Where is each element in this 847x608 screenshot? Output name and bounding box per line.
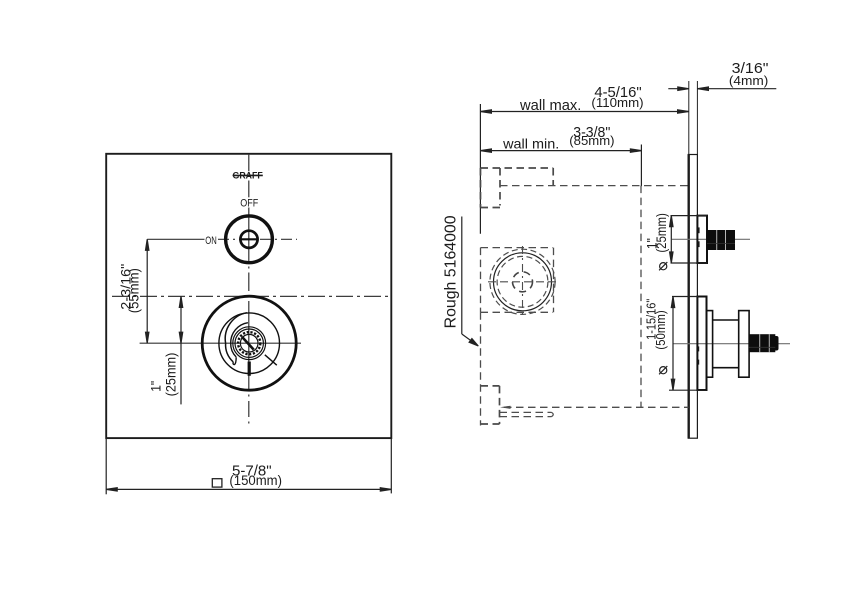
cartridge small dashed circle [513, 272, 533, 292]
cartridge vertical centerline [522, 246, 524, 318]
body right edge at wall [640, 186, 642, 408]
svg-text:wall min.: wall min. [502, 135, 559, 151]
dimension text 4-5/16" [594, 84, 641, 101]
dimension text 3/16" [732, 60, 769, 77]
knob centerline (side view) [672, 238, 750, 240]
svg-text:(50mm): (50mm) [653, 310, 668, 350]
dimension text 5-7/8" [232, 462, 272, 479]
supply pipe stub (dashed) [500, 412, 554, 416]
dimension text 1" [148, 381, 164, 392]
diameter symbol (50mm) [659, 366, 667, 374]
lever arc (outer edge) [225, 313, 247, 362]
top-left lug bottom [481, 207, 501, 209]
bottom spoke [248, 362, 251, 376]
wall dimension left extension line [479, 104, 481, 234]
dimension text (85mm) [569, 133, 614, 148]
cartridge horizontal centerline [488, 281, 556, 283]
rough-in valve body (hidden/dashed outline) [481, 168, 554, 424]
knurled ring [238, 332, 260, 354]
cartridge housing bottom edge [481, 311, 554, 313]
dimension 5-7/8in (150mm): dim line [106, 488, 391, 491]
svg-text:(55mm): (55mm) [126, 268, 142, 313]
handle outer disc (side view) [739, 311, 749, 378]
screw slot [242, 337, 254, 350]
OFF label [240, 198, 258, 210]
svg-text:(25mm): (25mm) [162, 353, 178, 397]
trim plate square outline [106, 154, 391, 438]
dimension 1in (25mm): vertical dim line [179, 296, 182, 404]
volume-control knob inner hub [240, 231, 257, 248]
body top edge [481, 167, 554, 169]
handle step ring (side view) [707, 311, 713, 378]
dimension text 2-3/16" [117, 264, 133, 310]
knob base (side view) [697, 216, 707, 263]
dimension text 3-3/8" [573, 125, 610, 141]
dimension 3/16in (4mm) plate thickness [668, 87, 776, 90]
dimension text (25mm) [162, 353, 178, 397]
label wall min. [502, 135, 559, 151]
top-left lug left side [480, 168, 482, 208]
dimension wall max 4-5/16in (110mm) [480, 110, 688, 113]
cartridge solid circle [494, 253, 552, 311]
svg-text:(85mm): (85mm) [569, 133, 614, 148]
svg-text:OFF: OFF [240, 198, 258, 210]
horizontal centerline through handle [140, 342, 301, 344]
Rough label leader line [462, 217, 479, 347]
cartridge outer dashed circle [490, 249, 555, 314]
wall plate side profile [688, 155, 697, 439]
ON label [205, 235, 217, 247]
svg-text:(25mm): (25mm) [654, 213, 669, 253]
svg-text:wall max.: wall max. [519, 97, 581, 114]
diagonal spoke [265, 355, 277, 365]
handle knurled stem (side view) [749, 334, 779, 352]
svg-text:Rough 5164000: Rough 5164000 [442, 215, 459, 328]
handle inner double ring [233, 327, 266, 360]
dimension text (25mm) [654, 213, 669, 253]
body left edge lower [480, 312, 482, 425]
dia 1in (25mm) dimension [670, 216, 707, 263]
handle skirt cylinder (side view) [713, 320, 739, 368]
bottom hidden-edge arrowhead [500, 406, 511, 409]
svg-text:(110mm): (110mm) [591, 95, 643, 110]
cartridge housing right edge [553, 248, 555, 313]
knob knurled stem (side view) [707, 230, 735, 250]
dimension text 1-15/16" (dia) [643, 298, 658, 340]
plate face tick marks [697, 227, 700, 364]
dimension 5-7/8in (150mm): extension lines [106, 438, 391, 494]
svg-text:(4mm): (4mm) [729, 73, 769, 88]
dimension text (4mm) [729, 73, 769, 88]
dimension text (110mm) [591, 95, 643, 110]
lever arc (inner edge) [231, 323, 248, 357]
thermostatic handle outer circle [202, 296, 296, 390]
bottom-left lug right side [499, 386, 501, 424]
body top step [552, 168, 554, 186]
thermostatic handle mid circle [219, 313, 280, 374]
lever end hook [233, 357, 236, 364]
handle base flange (side view) [697, 297, 706, 391]
square-symbol and dimension text (150mm) [212, 473, 282, 488]
dimension text (50mm) [653, 310, 668, 350]
GRAFF logo [233, 171, 263, 182]
dimension 2-3/16in (55mm): vertical dim line [146, 239, 149, 343]
label wall max. [519, 97, 581, 114]
body top hidden edge to wall [500, 185, 689, 187]
bottom-left lug top [481, 385, 500, 387]
dimension wall min 3-3/8in (85mm) [480, 149, 641, 152]
body bottom hidden edge to wall [504, 406, 689, 408]
svg-text:ON: ON [205, 235, 217, 247]
dia 1-15/16in (50mm) dimension [669, 297, 707, 391]
diameter symbol (25mm) [659, 262, 667, 270]
cartridge housing left edge [480, 248, 482, 313]
horizontal dash-dot reference line (1 inch above handle) [112, 295, 390, 297]
wall min right extension line [640, 145, 642, 187]
dimension text 1" (dia) [644, 238, 660, 249]
vertical centerline of plate [248, 154, 250, 424]
handle centerline (side view) [673, 343, 790, 345]
center screw circle [240, 334, 258, 352]
svg-text:(150mm): (150mm) [229, 473, 282, 488]
plate thickness extension lines [689, 81, 698, 155]
horizontal centerline through knob (ON line) [147, 238, 297, 240]
bottom-left lug bottom [481, 423, 500, 425]
dimension text (55mm) [126, 268, 142, 313]
volume-control knob outer circle [226, 216, 273, 263]
cartridge inner dashed circle [497, 256, 548, 307]
Rough 5164000 label (rotated) [442, 215, 459, 328]
svg-text:1": 1" [148, 381, 164, 392]
cartridge housing top edge [481, 247, 554, 249]
top-left lug inner side [499, 168, 501, 206]
